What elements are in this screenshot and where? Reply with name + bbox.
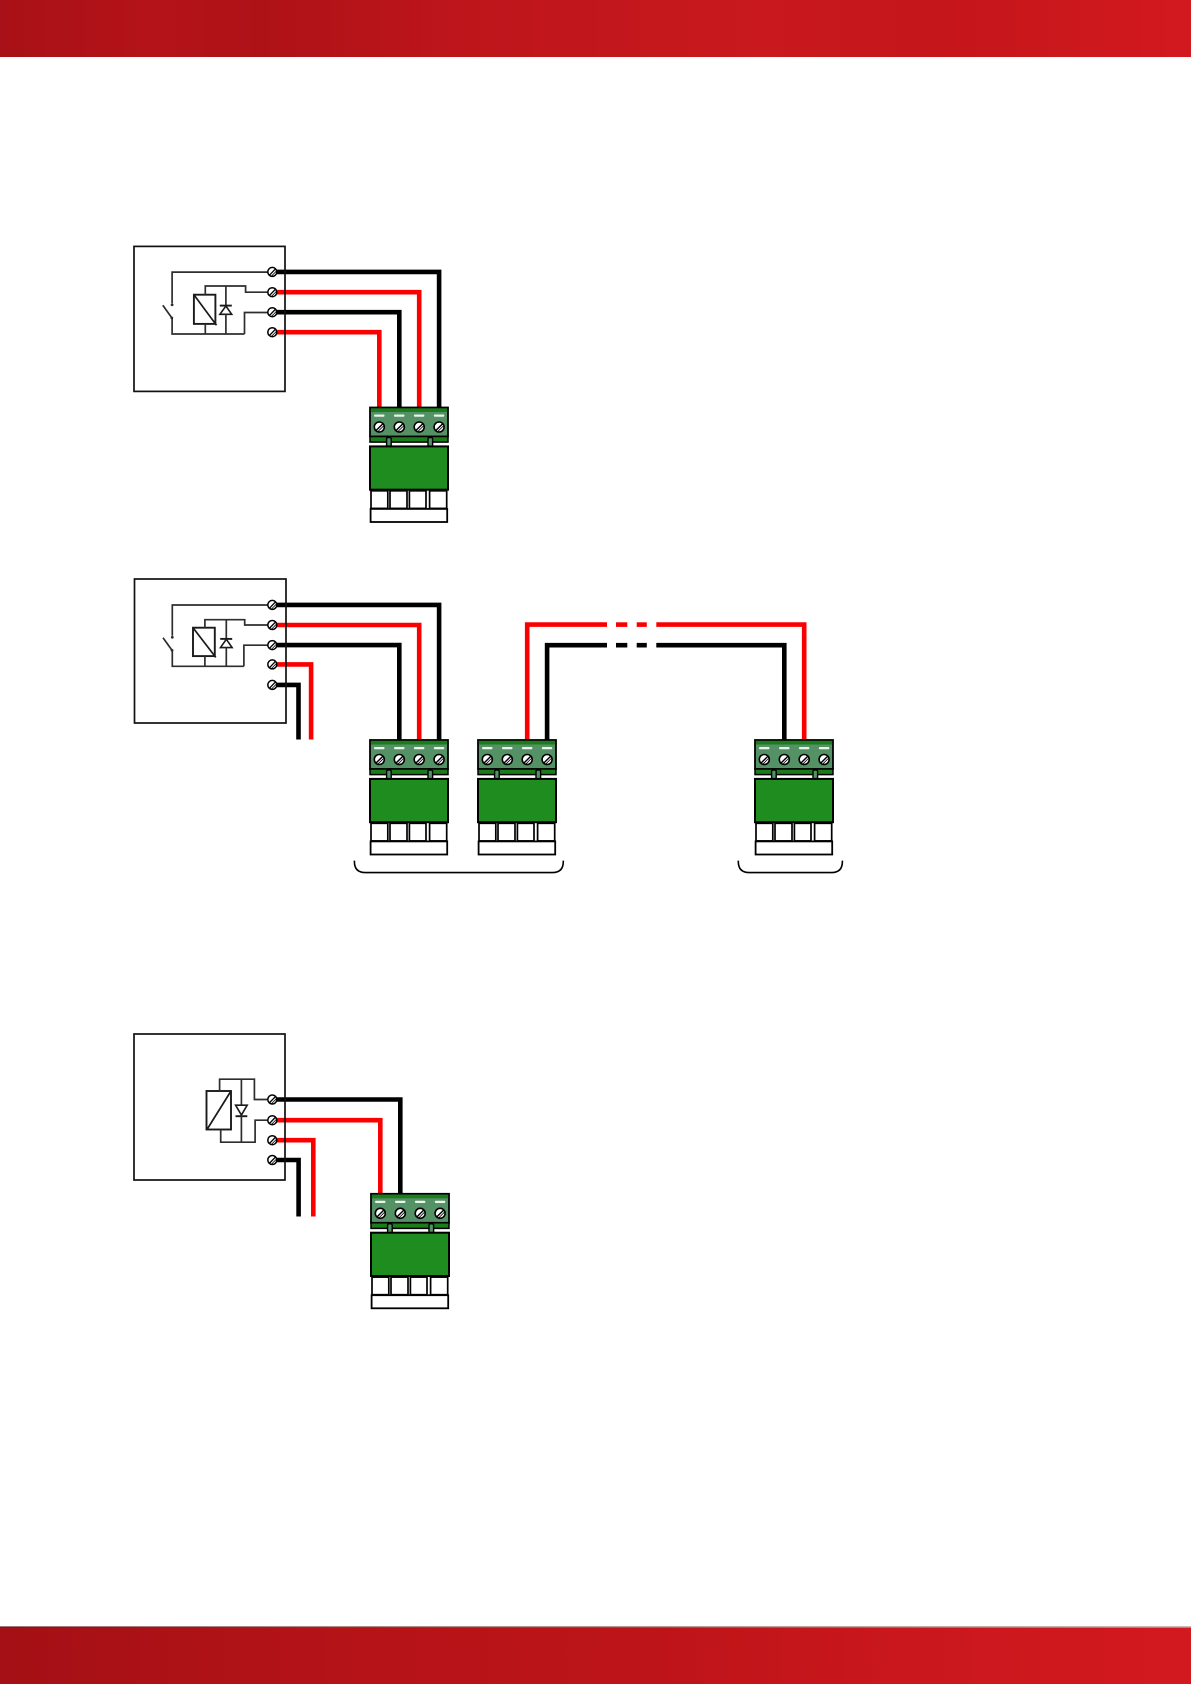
group bracket A <box>354 861 563 873</box>
wire coil top d2 <box>205 620 272 628</box>
terminal screw T1 d2 <box>268 600 277 609</box>
wire red bus dash1 <box>616 622 627 627</box>
wire black T3 to TB2a screw2 <box>272 645 399 744</box>
wire red bus TB2b to TB2c <box>527 625 607 744</box>
wire switch to bottom rail d2 <box>172 650 244 666</box>
wire red T2 to TB3 screw1 <box>272 1120 380 1198</box>
device box 3 <box>134 1034 285 1180</box>
terminal block TB2b <box>478 740 556 855</box>
wire step to T3 <box>245 313 273 335</box>
footer band top line <box>0 1626 1191 1628</box>
terminal screw T1 d3 <box>268 1095 277 1104</box>
terminal block TB2c <box>755 740 833 855</box>
switch blade S2 <box>163 638 172 651</box>
switch lower contact <box>170 317 173 320</box>
terminal screw T4 d2 <box>268 660 277 669</box>
wire node T1 rail <box>172 272 272 303</box>
wire red T3 dangling <box>272 1140 313 1216</box>
terminal screw T4 d3 <box>268 1156 277 1165</box>
wire red bus right <box>656 625 804 744</box>
switch arrow contact <box>171 303 174 306</box>
wire black T5 dangling <box>272 685 299 740</box>
terminal screw T2 <box>268 288 277 297</box>
diode D1 <box>220 286 232 334</box>
relay coil K2 <box>193 628 216 658</box>
switch arrow contact d2 <box>171 636 174 639</box>
wire step to T3 d2 <box>244 645 272 666</box>
relay coil K1 <box>194 295 217 326</box>
wire black T1 to TB1 screw4 <box>272 272 439 412</box>
wire node T1 rail d2 <box>172 605 272 636</box>
terminal screw T5 d2 <box>268 680 277 689</box>
terminal screw T1 <box>268 267 277 276</box>
wire black bus TB2b to TB2c <box>547 645 607 744</box>
wire black bus right <box>656 645 784 744</box>
wire coil bottom <box>204 324 206 334</box>
wire black bus dash1 <box>616 643 627 648</box>
wire coil bottom d2 <box>204 656 206 666</box>
terminal screw T3 d2 <box>268 641 277 650</box>
wire red T2 to TB2a screw3 <box>272 625 419 744</box>
terminal screw T4 <box>268 328 277 337</box>
terminal block TB3 <box>371 1194 449 1309</box>
wire red T4 to TB1 screw1 <box>272 332 379 412</box>
diode D2 <box>220 620 232 667</box>
header band <box>0 0 1191 57</box>
terminal screw T2 d2 <box>268 621 277 630</box>
wire coil top d3 <box>220 1079 272 1099</box>
wire red T2 to TB1 screw3 <box>272 292 419 412</box>
wire black T1 to TB2a screw4 <box>272 605 439 744</box>
terminal screw T3 <box>268 308 277 317</box>
switch lower contact d2 <box>171 649 174 652</box>
device box 1 <box>134 246 285 391</box>
group bracket B <box>738 861 842 873</box>
switch blade S1 <box>163 305 172 318</box>
relay coil K3 <box>207 1091 232 1130</box>
terminal block TB1 <box>370 408 448 523</box>
device box 2 <box>135 579 287 723</box>
wire red T4 dangling <box>272 664 311 739</box>
wire switch to bottom rail <box>172 318 244 334</box>
terminal block TB2a <box>370 740 448 855</box>
wire black T3 to TB1 screw2 <box>272 312 399 412</box>
footer band <box>0 1628 1191 1684</box>
diode D3 <box>236 1079 248 1142</box>
terminal screw T3 d3 <box>268 1136 277 1145</box>
wire red bus dash2 <box>637 622 647 627</box>
wire black bus dash2 <box>637 643 647 648</box>
wire coil top <box>205 286 272 295</box>
terminal screw T2 d3 <box>268 1116 277 1125</box>
wire coil bottom d3 <box>221 1120 272 1142</box>
wire black T4 dangling <box>272 1160 299 1217</box>
wire black T1 to TB3 screw2 <box>272 1100 400 1199</box>
